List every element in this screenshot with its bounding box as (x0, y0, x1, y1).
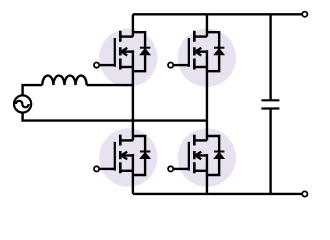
wire: AC return to node B (right leg midpoint) (23, 113, 207, 121)
channel segments Q1 (119, 31, 122, 70)
capacitor C1 (261, 14, 279, 194)
inductor L1 (42, 76, 86, 86)
output terminal DC- (302, 191, 307, 196)
body arrow Q4 (195, 152, 207, 160)
wire: capacitor to bottom bus (269, 109, 271, 194)
body diode D4 (207, 136, 224, 175)
highlight circle Q1 (99, 29, 157, 87)
highlight circle Q4 (178, 128, 236, 186)
transistor Q3 (94, 135, 150, 175)
wire: gate lead Q2 (174, 64, 189, 66)
gate terminal pin Q4 (168, 166, 173, 171)
gate electrode Q1 (114, 38, 116, 67)
channel segments Q4 (193, 135, 196, 174)
highlight circle Q3 (99, 128, 157, 186)
wire: drain stub Q3 (120, 139, 133, 141)
body diode D1 (133, 32, 150, 71)
wire: drain stub Q4 (194, 139, 207, 141)
gate electrode Q3 (114, 142, 116, 171)
gate electrode Q2 (188, 38, 190, 67)
body diode D3 (133, 136, 150, 175)
wire: left leg top (bus to Q1 drain) (132, 14, 134, 36)
wire: gate lead Q3 (100, 168, 115, 170)
channel segments Q3 (119, 135, 122, 174)
transistor Q2 (168, 31, 224, 71)
wire: top bus to capacitor (269, 14, 271, 100)
body arrow Q2 (195, 48, 207, 56)
wire: right leg middle, node B (Q2 source to Q4 drain) (206, 50, 208, 140)
wire: top bus DC+ (133, 13, 302, 15)
wire: AC source to inductor (23, 85, 43, 95)
wire: bottom bus DC- (133, 193, 302, 195)
wire: right leg bottom (Q4 source to bottom bus) (206, 154, 208, 194)
wire: gate lead Q4 (174, 168, 189, 170)
gate electrode Q4 (188, 142, 190, 171)
wire: source stub Q3 (120, 170, 133, 172)
wire: left leg bottom (Q3 source to bottom bus) (132, 154, 134, 194)
gate terminal pin Q3 (94, 166, 99, 171)
wire: inductor to node A (left leg midpoint) (87, 84, 133, 86)
capacitor plates C1 (261, 100, 279, 108)
wire: source stub Q1 (120, 66, 133, 68)
gate terminal pin Q1 (94, 63, 99, 68)
wire: left leg middle, node A (Q1 source to Q3 drain) (132, 50, 134, 140)
wire: source stub Q4 (194, 170, 207, 172)
channel segments Q2 (193, 31, 196, 70)
wire: drain stub Q1 (120, 35, 133, 37)
wire: drain stub Q2 (194, 35, 207, 37)
body arrow Q1 (121, 48, 133, 56)
wire: source stub Q2 (194, 66, 207, 68)
transistor Q1 (94, 31, 150, 71)
body arrow Q3 (121, 152, 133, 160)
highlight circle Q2 (178, 29, 236, 87)
wire: gate lead Q1 (100, 64, 115, 66)
gate terminal pin Q2 (168, 63, 173, 68)
output terminal DC+ (302, 12, 307, 17)
transistor Q4 (168, 135, 224, 175)
AC source V1 (14, 95, 31, 112)
wire: right leg top (bus to Q2 drain) (206, 14, 208, 36)
body diode D2 (207, 32, 224, 71)
